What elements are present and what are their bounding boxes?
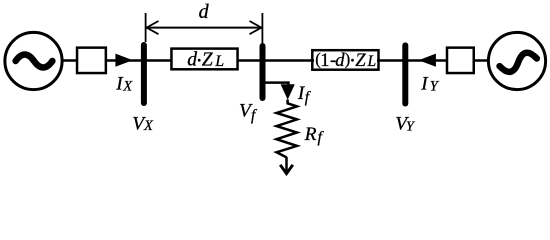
svg-text:Z: Z xyxy=(202,49,214,70)
ground arrow (open arrowhead down) xyxy=(280,165,293,174)
wire bus VX to line-impedance box xyxy=(145,59,172,62)
dimension line xyxy=(147,27,262,29)
current arrow IY xyxy=(419,54,436,67)
bus bar Vf (fault node) xyxy=(260,46,266,98)
sine wave symbol of source X xyxy=(16,55,53,68)
label (1-d)*ZL dot xyxy=(351,59,354,62)
wire impedance box to bus VX xyxy=(105,59,143,62)
svg-text:d: d xyxy=(199,1,210,23)
dimension arrowhead right xyxy=(250,21,262,34)
dimension tick left xyxy=(145,13,147,42)
dimension arrowhead left xyxy=(147,21,159,34)
source X impedance box xyxy=(77,48,106,73)
svg-text:d: d xyxy=(187,49,197,70)
wire resistor to ground arrow xyxy=(285,157,288,171)
svg-text:Z: Z xyxy=(355,50,366,71)
fault current arrow If xyxy=(281,84,295,100)
wire box to bus Vf xyxy=(237,59,261,62)
wire box 2 to bus VY xyxy=(377,59,404,62)
wire bus VY to source Y impedance box xyxy=(407,59,448,62)
AC source circle left (source X) xyxy=(5,32,62,89)
current arrow IX xyxy=(115,54,132,67)
bus bar VX xyxy=(141,45,147,103)
dimension tick right xyxy=(261,13,263,43)
fault branch horizontal wire from bus Vf xyxy=(264,81,290,84)
AC source circle right (source Y) xyxy=(488,32,545,89)
wire source X to impedance box xyxy=(62,59,78,62)
wire impedance box to source Y xyxy=(473,59,489,62)
bus bar VY xyxy=(402,45,408,103)
wire bus Vf to line-impedance box 2 xyxy=(264,59,314,62)
line impedance box (1-d)*ZL xyxy=(312,50,378,69)
svg-text:): ) xyxy=(345,50,350,69)
svg-text:L: L xyxy=(214,53,224,70)
fault branch corner stub xyxy=(287,81,290,86)
label d*ZL dot operator xyxy=(198,59,201,62)
svg-text:1: 1 xyxy=(320,50,329,71)
svg-text:L: L xyxy=(367,53,377,70)
sine wave symbol of source Y xyxy=(498,51,538,74)
line impedance box d*ZL xyxy=(171,49,237,70)
fault resistor Rf zigzag xyxy=(277,100,298,158)
source Y impedance box xyxy=(447,48,474,73)
